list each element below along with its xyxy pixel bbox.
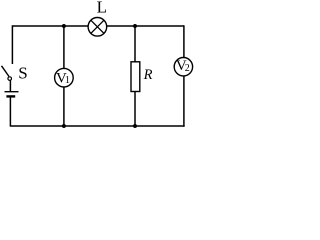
- junction dot top-left: [62, 24, 66, 28]
- wire V1 branch: [63, 26, 65, 126]
- resistor R: [131, 62, 140, 92]
- wire left rail lowest (battery to bottom): [9, 96, 11, 126]
- svg-text:1: 1: [65, 75, 70, 86]
- junction dot top-right: [133, 24, 137, 28]
- voltmeter V1: [55, 68, 74, 87]
- svg-text:L: L: [97, 0, 107, 17]
- voltmeter V2: [174, 57, 192, 75]
- wire right rail: [183, 25, 185, 126]
- wire left rail upper: [11, 25, 13, 64]
- wire R branch: [134, 26, 136, 126]
- svg-text:R: R: [143, 67, 153, 83]
- battery cell: [5, 92, 19, 97]
- junction dot bottom-right: [133, 124, 137, 128]
- wire top rail: [12, 25, 184, 27]
- switch S: [2, 66, 12, 81]
- wire left rail lower (switch to battery): [9, 80, 11, 92]
- lamp L: [88, 18, 107, 37]
- svg-text:2: 2: [185, 63, 190, 74]
- junction dot bottom-left: [62, 124, 66, 128]
- wire bottom rail: [10, 125, 185, 127]
- svg-text:S: S: [18, 64, 27, 83]
